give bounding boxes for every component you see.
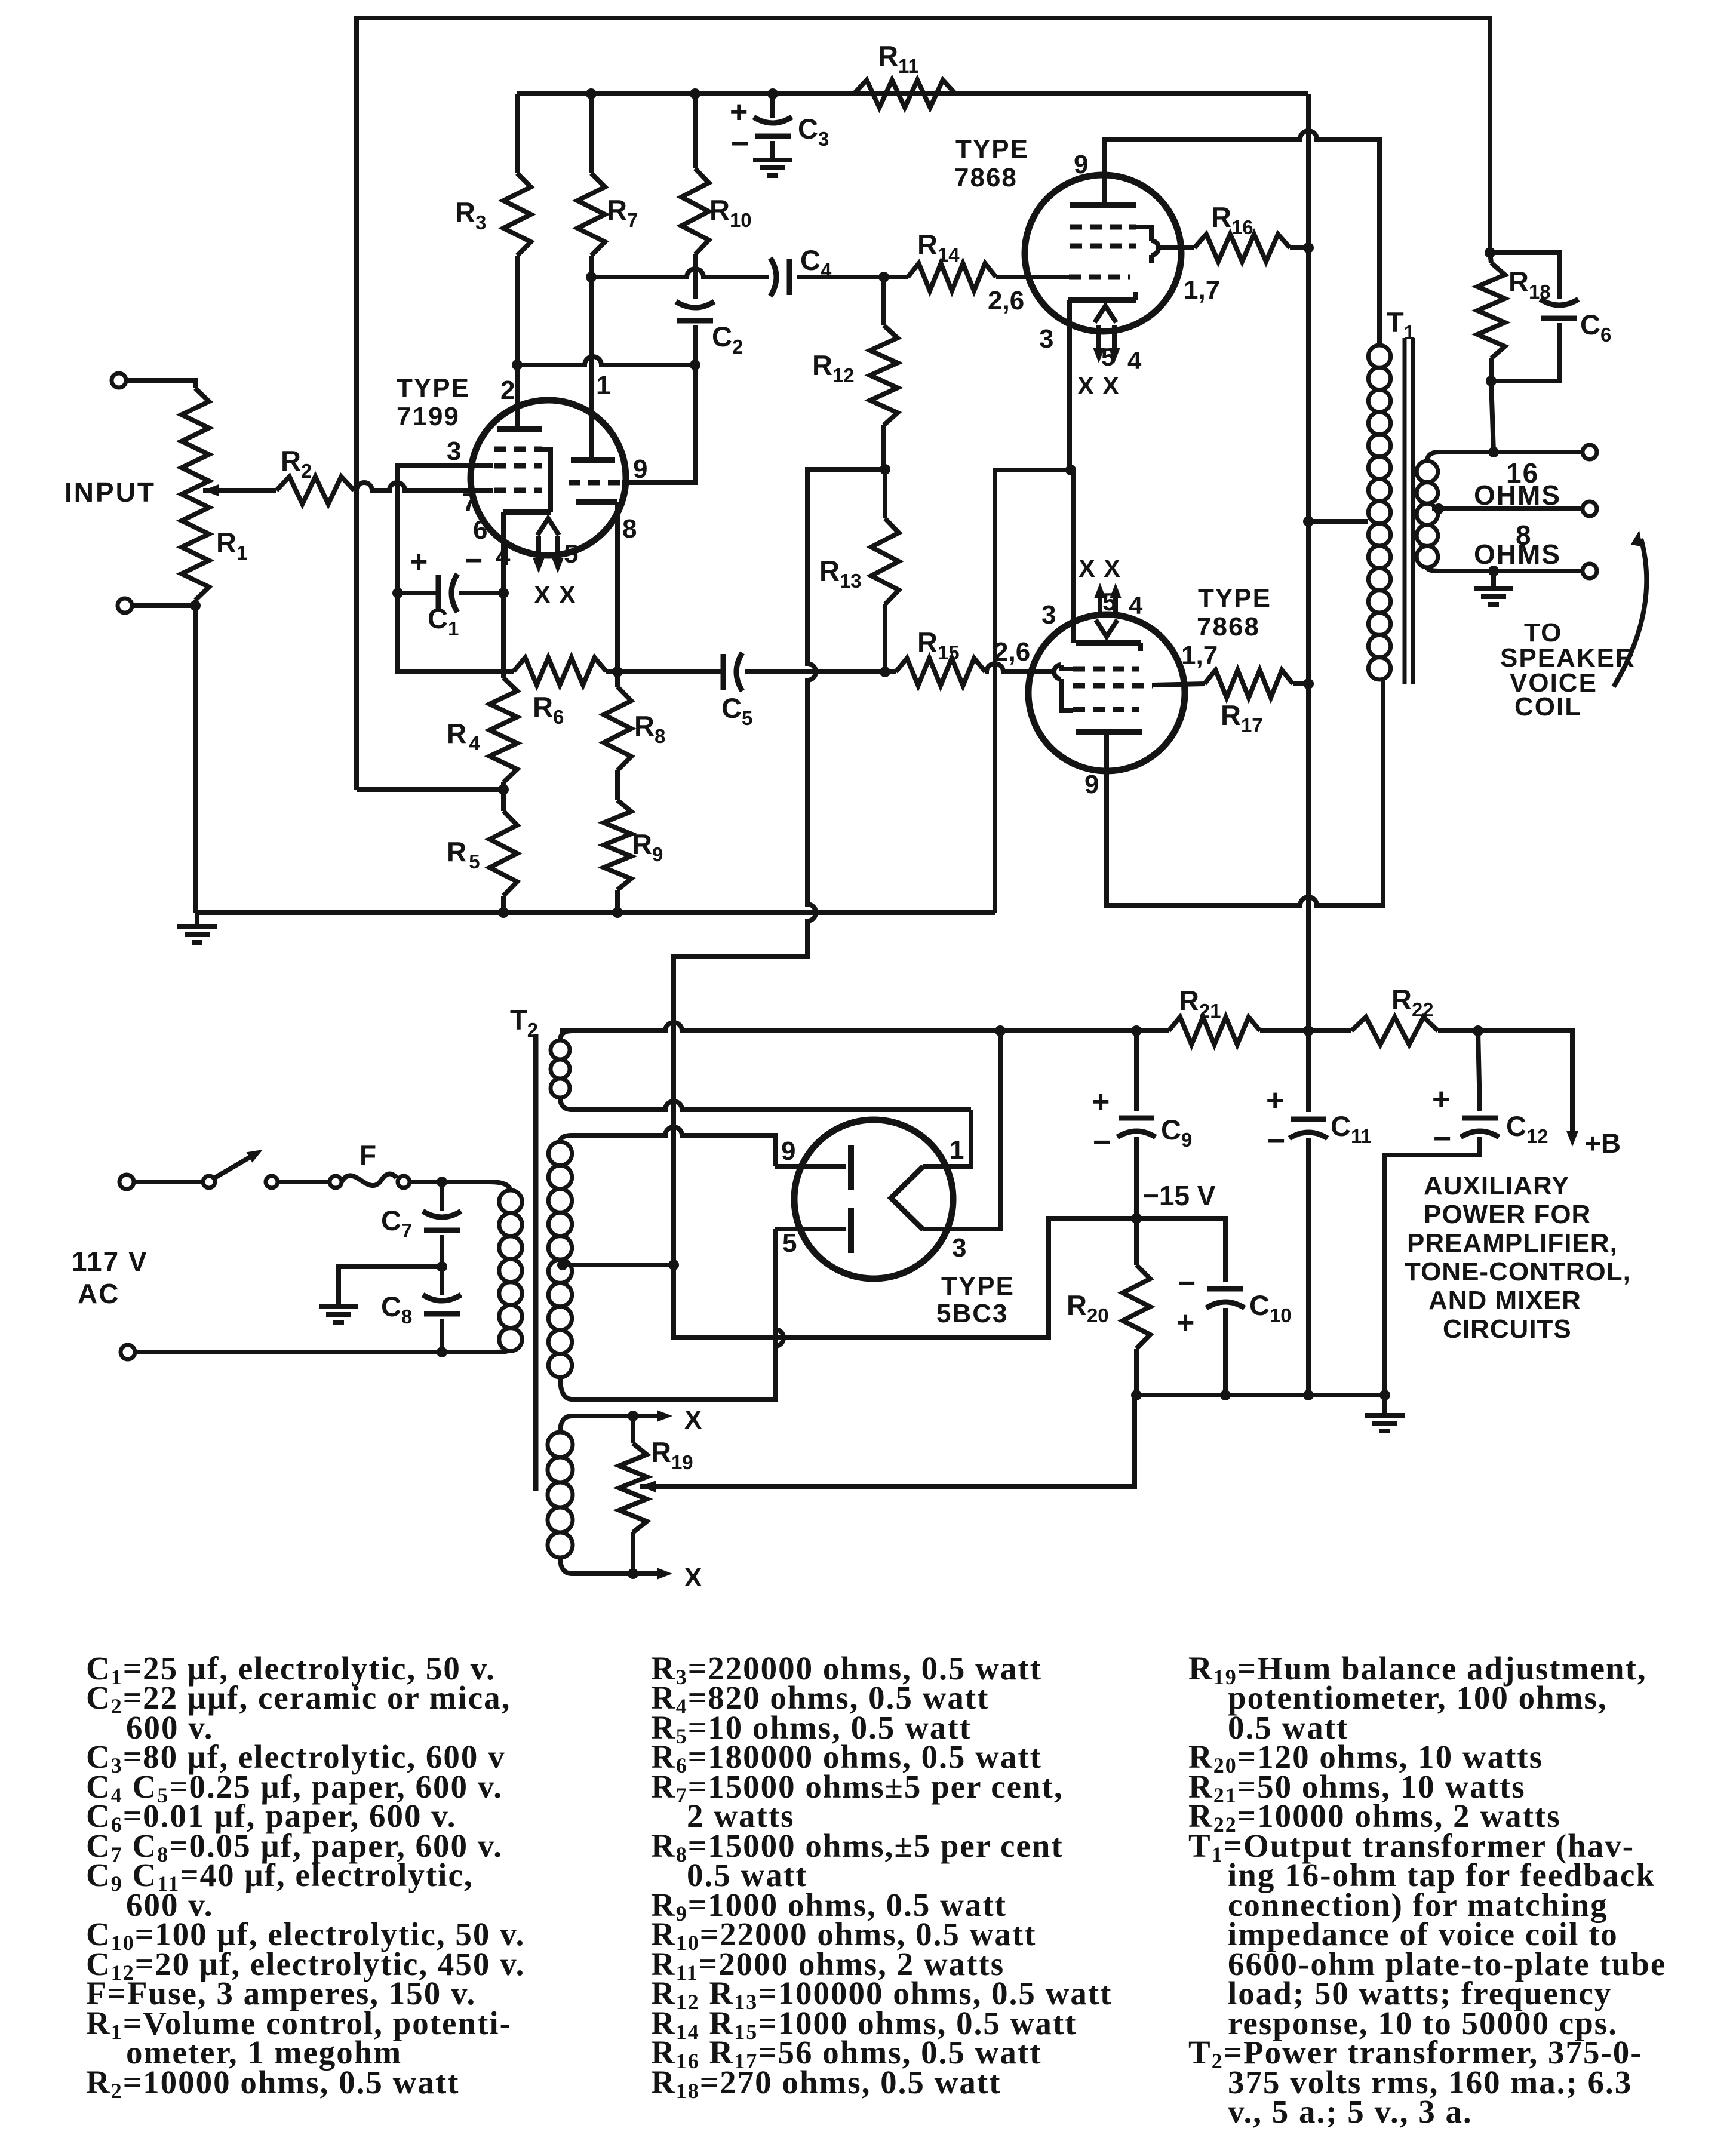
wire ground bus (input to center riser) [195,910,995,915]
svg-text:+: + [1092,1085,1110,1119]
node R12/R13 bias junction [880,464,890,475]
wire power ground bus [1136,1393,1385,1397]
svg-text:+B: +B [1585,1128,1621,1159]
wire C5 line [617,669,722,674]
ground symbol power [1382,1395,1387,1413]
wiper of R19 [640,1481,656,1492]
svg-text:OHMS: OHMS [1474,539,1561,570]
wire left vertical bottom leg to R4/R5 junction [357,787,503,792]
svg-text:R2=10000 ohms, 0.5 watt: R2=10000 ohms, 0.5 watt [86,2064,459,2103]
U1 suppressor bracket [542,449,551,512]
switch pivot [203,1176,215,1188]
wire C1 bypass loop bottom [398,593,503,671]
node R10 top on bus [690,88,700,99]
node R18 bottom [1486,376,1497,386]
svg-text:5: 5 [564,539,578,569]
V2 screen bracket to pins 1,7 [1136,227,1151,241]
node R16 right [1303,242,1314,253]
svg-text:TONE-CONTROL,: TONE-CONTROL, [1405,1257,1631,1286]
svg-text:X: X [534,580,551,609]
svg-text:X: X [1077,371,1094,400]
V4 plate 1 bar [848,1145,854,1190]
svg-text:9: 9 [1074,150,1088,179]
capacitor C1 [436,575,441,611]
svg-text:INPUT: INPUT [64,477,156,508]
transformer T2 6.3V winding [548,1432,573,1457]
svg-text:AC: AC [78,1278,119,1309]
node R7 top on bus [586,88,597,99]
wire V4 pin 1 to 5V winding [923,1110,971,1166]
svg-text:+: + [1176,1306,1194,1340]
svg-text:4: 4 [1127,346,1142,374]
wire 5V winding top to supply bus [560,1031,572,1040]
fuse terminal left [330,1176,342,1188]
wire switch to fuse [278,1180,330,1184]
resistor R17 [1205,670,1293,698]
resistor R10 [693,94,698,168]
svg-text:−: − [1433,1122,1451,1156]
svg-text:X: X [1079,554,1095,582]
svg-text:X: X [684,1563,702,1592]
V3 heater chevron [1096,620,1117,637]
svg-text:9: 9 [1084,770,1099,799]
svg-text:+: + [1266,1083,1284,1118]
node C1 right [498,588,509,598]
node HV center tap [557,1260,568,1270]
node 6.3V top / R19 [628,1411,638,1421]
U1 pentode plate (pin 2) [497,426,542,432]
svg-text:5: 5 [782,1228,797,1258]
svg-text:+: + [410,545,428,579]
fuse terminal right [398,1176,410,1188]
node bus C12/+B [1473,1025,1483,1036]
wire HV top to pin 9 [560,1127,775,1166]
wire HV bottom to pin 5 [560,1229,783,1399]
V3 plate bar (pin 9) [1076,729,1142,735]
wiper of R1 with arrow [203,484,219,496]
svg-text:TYPE: TYPE [941,1271,1015,1301]
svg-text:−: − [465,543,483,578]
svg-text:R18=270 ohms, 0.5 watt: R18=270 ohms, 0.5 watt [651,2064,1001,2103]
svg-text:3: 3 [1041,600,1056,629]
svg-text:CIRCUITS: CIRCUITS [1443,1314,1572,1344]
terminal input top [112,373,126,388]
wire T1 secondary 8-ohm tap [1432,506,1583,511]
svg-text:1,7: 1,7 [1181,641,1218,670]
V2 plate bar (pin 9) [1070,202,1136,208]
capacitor C10 branch [1136,1218,1225,1282]
node C10 ground [1220,1390,1231,1400]
resistor R2 [276,477,354,504]
resistor R9 [604,800,631,890]
node R18 top (feedback) [1485,247,1495,258]
svg-text:−: − [1093,1125,1111,1160]
svg-text:7: 7 [462,488,477,517]
terminal input bottom [118,598,132,613]
wire bias rail to -15V node [674,469,1136,1338]
resistor R22 [1351,1017,1438,1045]
transformer T2 HV winding [548,1142,572,1165]
node R6/R8/C5/pin8 [612,666,623,677]
V4 pin 9 wire [775,1164,846,1169]
node center tap junction [668,1260,679,1270]
svg-text:2: 2 [500,376,515,405]
tube V3 7868 lower envelope [1028,615,1185,771]
wire C4 line from triode plate [591,269,769,277]
svg-text:−: − [1178,1266,1196,1301]
resistor R20 [1134,1218,1139,1265]
wire B+ bus (R3 top to screen-supply vertical) [517,91,1308,96]
svg-text:−: − [1267,1124,1285,1159]
svg-text:X: X [559,580,576,609]
transformer T1 secondary winding [1417,461,1438,483]
wire fuse to T2 [410,1180,448,1184]
svg-text:+: + [1432,1082,1450,1117]
node C11 ground [1303,1390,1314,1400]
terminal secondary common [1583,564,1597,578]
U1 triode grid row [569,480,622,486]
speaker curved arrow [1614,539,1646,687]
svg-text:TYPE: TYPE [955,134,1029,164]
wire triode grid pin 9 route [622,365,695,483]
wire V3 plate to T1 primary bottom [1107,680,1383,905]
node 6.3V bottom / R19 [628,1568,638,1579]
wire T1 center tap [1308,519,1368,524]
V4 cathode arrow [891,1166,923,1230]
svg-text:5BC3: 5BC3 [936,1299,1009,1328]
svg-text:3: 3 [1039,324,1053,354]
node input bottom junction [190,600,201,611]
svg-text:−: − [731,127,749,161]
svg-text:−15 V: −15 V [1143,1180,1216,1211]
ground symbol AC [319,1304,358,1309]
tube U1 7199 envelope [471,400,626,555]
svg-text:2,6: 2,6 [988,286,1024,315]
wire 7199 plate to triode grid (node A) [517,357,695,365]
svg-text:TYPE: TYPE [1198,583,1271,613]
node C12 ground [1379,1390,1390,1400]
resistor R15 [896,658,985,686]
svg-text:POWER FOR: POWER FOR [1424,1200,1591,1229]
svg-text:AND MIXER: AND MIXER [1428,1286,1581,1315]
node R9 bottom [612,907,623,918]
capacitor C4 [787,259,792,295]
terminal AC bottom [121,1345,135,1359]
svg-text:1,7: 1,7 [1184,275,1220,305]
svg-text:TYPE: TYPE [397,373,470,403]
svg-text:3: 3 [447,437,461,466]
V2 heater arrow left [1096,325,1101,355]
svg-text:1: 1 [950,1135,964,1165]
ground symbol input [195,913,199,924]
svg-text:5: 5 [1101,343,1115,371]
svg-text:PREAMPLIFIER,: PREAMPLIFIER, [1407,1228,1618,1258]
ground symbol speaker [1491,571,1496,586]
transformer T1 core [1403,338,1407,684]
wire 6.3V bottom lead [560,1558,633,1574]
V2 grid rows [1070,225,1136,230]
terminal 8 ohm [1583,502,1597,516]
arrow X bottom [633,1571,664,1576]
node C4/R14/R12 [878,272,889,282]
svg-text:8: 8 [622,514,637,543]
node -15V [1131,1213,1142,1224]
node R20 ground [1131,1390,1142,1400]
node bus C11 [1303,1025,1314,1036]
node T1 center tap on screen vertical [1303,516,1314,527]
tube V2 7868 upper envelope [1025,175,1181,331]
wire T1 secondary bottom [1427,567,1583,571]
svg-text:9: 9 [633,454,647,484]
wire R1 bottom to ground bus [193,600,198,913]
resistor R4 [501,593,506,678]
node R5 bottom [498,907,509,918]
capacitor C8 [440,1267,444,1295]
U1 triode plate (pin 1) [571,457,615,463]
wire AC line to T2 primary top [448,1182,511,1192]
resistor R11 on bus [854,80,955,107]
wire to switch [134,1180,203,1184]
wire C4 to R14 node [797,275,884,279]
resistor R18 [1490,253,1491,263]
svg-text:6: 6 [473,515,487,545]
wire 5V winding bottom to pin 1 [560,1098,971,1110]
resistor R6 [514,658,606,685]
wire V2 cathode lead [1067,300,1072,470]
wire upper 7868 plate to T1 primary top [1105,131,1379,345]
svg-text:OHMS: OHMS [1474,480,1561,511]
node J1 R4/R5 junction [498,784,509,795]
svg-text:v., 5 a.; 5 v., 3 a.: v., 5 a.; 5 v., 3 a. [1228,2093,1473,2130]
wire +B takeoff [1478,1031,1572,1132]
ground symbol C3 [753,158,792,162]
resistor R3 [515,94,520,173]
resistor R5 [501,790,506,811]
svg-text:3: 3 [952,1233,966,1263]
node C7/C8 junction [437,1261,447,1272]
U1 heater chevron [537,518,559,535]
resistor R1 volume control element [182,388,209,600]
wire R18 bottom to 16-ohm tap [1491,381,1494,452]
node R3 bottom / 7199 plate [512,360,523,370]
transformer T2 primary winding [499,1190,522,1213]
fuse F element [342,1174,397,1185]
V2 heater chevron [1095,306,1116,322]
wire V4 pin 3 to supply bus [923,1031,1000,1229]
V3 cathode (pin 3) [1076,640,1141,646]
svg-text:1: 1 [596,371,610,400]
capacitor C6 branch [1490,253,1559,299]
svg-text:F: F [360,1139,376,1171]
svg-text:4: 4 [1129,591,1143,619]
node cathodes junction [1065,465,1076,475]
resistor R13 [883,604,887,672]
node C1 left [392,588,403,598]
wire input bottom terminal [132,603,195,608]
svg-text:X: X [1104,554,1120,582]
resistor R21 [1169,1017,1260,1045]
node AC bottom junction [437,1347,447,1357]
wire R2 to 7199 grid (hops left vertical and cathode line) [354,483,493,490]
node R17 right [1303,678,1314,689]
svg-text:9: 9 [781,1137,795,1166]
capacitor C2 [676,302,714,308]
U1 triode cathode (pin 8) [576,499,617,505]
wire U1 pin 6 screen lead [501,512,506,593]
svg-text:2,6: 2,6 [994,637,1030,666]
node C5/R13/R15 [880,666,890,677]
wire ground branch [339,1267,442,1304]
svg-text:X: X [1102,371,1119,400]
capacitor C5 [721,654,726,690]
capacitor C9 [1134,1031,1139,1111]
svg-text:+: + [730,95,748,130]
wire U1 pin 3 cathode to C1 left [398,466,493,593]
capacitor C7 [440,1182,444,1211]
transformer T2 core [533,1034,539,1491]
capacitor C12 [1478,1031,1480,1111]
wire screen supply vertical (bus corner down to C11 node) [1306,94,1311,1031]
V4 plate 2 bar [848,1208,854,1253]
wire rectified supply bus [560,1022,1169,1031]
wire T1 secondary top (16 ohm line) [1427,452,1583,461]
transformer T1 primary winding [1368,345,1390,367]
wire V3 screen to R17 [1153,684,1205,685]
U1 heater arrow 5 [555,536,560,566]
node R7/C4 tap [586,272,597,282]
resistor R12 [881,277,886,325]
node bus C9 branch [1131,1025,1142,1036]
V3 heater arrow right [1113,591,1118,618]
V3 grid bracket pins 2,6 [1061,665,1073,669]
wire T2 primary bottom lead [135,1349,511,1352]
V2 cathode (pin 3) [1068,297,1136,303]
svg-text:7868: 7868 [1197,612,1260,641]
wire V3 cathode lead [1071,470,1076,643]
svg-text:X: X [684,1405,702,1435]
tube V4 5BC3 envelope [794,1120,953,1279]
resistor R14 [884,275,908,279]
wire 6.3V top lead [560,1416,633,1432]
arrow X top [633,1414,664,1418]
node C3 top on bus [767,88,778,99]
svg-text:COIL: COIL [1514,692,1582,721]
capacitor C11 [1306,1031,1311,1112]
V4 pin 5 wire [775,1227,846,1231]
node bus pin3 branch [995,1025,1006,1036]
V3 grid rows [1073,666,1139,672]
U1 pentode grid rows [494,447,542,452]
wire HV center tap [563,1263,674,1267]
capacitor C3 [770,94,775,118]
resistor R16 [1194,234,1290,262]
resistor R19 hum balance [631,1416,635,1443]
terminal 16 ohm [1583,445,1597,459]
node C2 bottom / triode grid [690,360,700,370]
U1 pentode cathode [503,509,551,515]
wire feedback loop top frame (R4/R5 node to R18 top) [357,18,1490,790]
svg-text:5: 5 [1102,588,1116,616]
transformer T2 5V winding [551,1040,570,1059]
node C7 top [437,1177,447,1187]
svg-text:7199: 7199 [397,402,460,431]
svg-text:AUXILIARY: AUXILIARY [1424,1171,1570,1200]
node 16-ohm feedback tap [1488,447,1499,457]
U1 heater arrow 4 [536,536,541,566]
svg-text:7868: 7868 [954,163,1018,192]
switch contact [266,1176,278,1188]
wire cathode return riser [995,470,1071,913]
V2 heater arrow right [1112,325,1117,355]
switch blade [214,1154,256,1178]
terminal AC top [119,1175,134,1189]
node secondary ground tap [1488,566,1499,576]
resistor R8 [615,672,620,687]
wire input top to R1 [126,380,195,388]
svg-text:117 V: 117 V [72,1246,148,1277]
resistor R7 [589,94,594,173]
V3 heater arrow left [1098,591,1102,618]
